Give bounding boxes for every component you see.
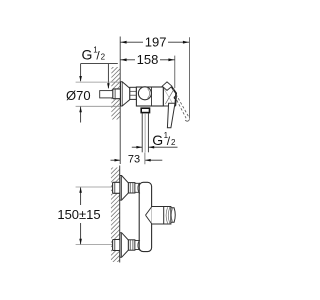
union/body intersection arcs <box>138 183 140 193</box>
svg-text:197: 197 <box>145 35 167 50</box>
svg-text:G: G <box>82 47 93 63</box>
escutcheon flange cone (side view) <box>121 82 130 106</box>
top union hex nut <box>128 183 135 193</box>
top union link cylinder <box>135 183 140 192</box>
svg-text:G: G <box>152 132 163 148</box>
wall section hatching (front view, bottom figure) <box>111 161 120 269</box>
dimension 150±15 <box>80 187 82 244</box>
handle hub (right end of body) <box>163 87 176 106</box>
label G 1/2 (top inlet) <box>82 46 106 63</box>
svg-text:Ø70: Ø70 <box>66 88 91 103</box>
dimension 197 <box>120 37 189 119</box>
svg-text:73: 73 <box>128 153 140 165</box>
handle wedge on top <box>162 82 172 91</box>
bottom union hex nut <box>128 240 135 250</box>
dimension 158 <box>120 56 175 88</box>
mixer body (side view) <box>136 87 163 106</box>
bottom union link cylinder <box>135 241 140 250</box>
top union nut behind wall <box>113 182 120 193</box>
spout hub cone (erases body edge) <box>151 207 163 224</box>
hose centre extension line <box>144 153 146 165</box>
cartridge dome circle <box>138 87 151 100</box>
spout hub cylinder <box>164 207 171 225</box>
dimension Ø70 extension lines <box>76 81 121 83</box>
label G 1/2 (hose outlet) <box>152 131 176 148</box>
bottom union escutcheon cone <box>120 233 128 258</box>
lever pivot screw <box>174 96 177 99</box>
hose thread arrows <box>132 146 142 148</box>
dimension Ø70 lower arrow <box>80 107 82 123</box>
dimension 73 <box>111 159 121 161</box>
lever handle phantom (raised position, dashed) <box>175 94 189 118</box>
supply pipe stub behind wall <box>100 91 113 98</box>
svg-text:158: 158 <box>137 52 159 67</box>
bottom union nut behind wall <box>113 240 120 251</box>
svg-text:2: 2 <box>171 138 176 147</box>
wall face line (bottom figure) <box>119 166 121 263</box>
lever handle (down position) <box>167 103 175 128</box>
leader line under G 1/2 <box>81 63 118 65</box>
leader arrow left (down to Ø70 extension) <box>80 64 82 82</box>
leader arrow right (down to union nut) <box>107 64 109 89</box>
mixer body (front/top view) <box>139 182 151 251</box>
spout end cap <box>171 208 175 223</box>
union nut behind wall <box>113 89 121 99</box>
shower hose pipe <box>142 113 148 152</box>
top union escutcheon cone <box>120 176 128 201</box>
dimension 150±15 extension lines <box>76 186 113 188</box>
wall face / extension line (top figure) <box>119 37 121 165</box>
wall section hatching (side view, top figure) <box>111 60 120 125</box>
adapter hex nut <box>130 87 137 99</box>
shower hose nut <box>141 108 149 112</box>
svg-text:2: 2 <box>101 53 106 62</box>
svg-text:150±15: 150±15 <box>57 207 100 222</box>
